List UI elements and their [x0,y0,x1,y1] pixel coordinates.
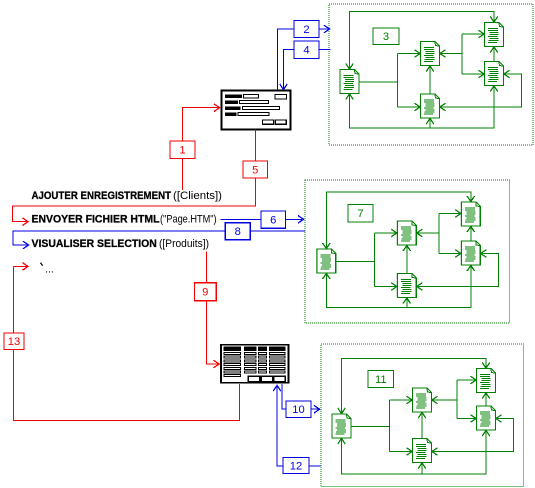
module 3 arrow into left doc bottom [338,439,346,445]
arrow blue into module3 border [314,405,320,413]
module 2 arrow into left doc bottom [323,274,331,280]
wire blue table to box10 [282,384,286,409]
svg-text:AJOUTER ENREGISTREMENT([Client: AJOUTER ENREGISTREMENT([Clients]) [32,190,223,202]
module 2 wire centre-bottom to centre-top [406,246,408,274]
svg-text:3: 3 [383,31,389,43]
event box 4 [294,41,319,59]
module 3 document right-mid [477,406,496,430]
module 2 arrow into left doc top [323,243,331,249]
svg-text:10: 10 [292,404,304,416]
module 1 arrow into centre-bottom doc right [440,103,446,111]
module 3 document top-right [477,369,496,393]
module 1 wire left doc to junction [360,81,398,83]
module 1 arrow into centre-top doc bottom [426,66,434,72]
wire blue box10 right arrow [311,408,319,410]
wire blue box4 right to module1 [319,49,331,51]
module 3 arrow into top-right doc top [482,363,490,369]
module 3 wire junction to centre-top doc [390,399,413,401]
sequence box 9 [194,283,216,301]
module 1 arrow into left doc top [346,64,354,70]
module 1 arrow into right-mid doc bottom [490,86,498,92]
module 2 arrow into top-right doc left [455,210,461,218]
module 1 junction vertical [397,54,399,108]
module 3 document centre-top [413,388,432,412]
svg-text:5: 5 [252,164,258,176]
arrow blue into table bottom [273,386,281,392]
wire blue box4 left to form top [284,50,295,89]
arrow blue into module2 border [298,216,304,224]
module 3 arrow into right-mid doc left [471,415,477,423]
module 2 wire junction to centre-top doc [374,232,397,234]
wire blue box12 right to module3 [309,465,321,467]
module 3 wire right return [432,419,514,452]
sequence box 1 [170,141,195,159]
arrow red into form left [214,104,220,112]
module 2 wire bottom rail [326,266,471,308]
module 3 arrow into top-right doc left [471,376,477,384]
form window icon [222,91,291,130]
module 1 arrow into centre-top doc right [440,50,446,58]
module 3 hub vertical [456,380,458,419]
module 2 junction vertical [373,233,375,287]
module 3 wire right-mid to top-right [485,393,487,406]
module 3 arrow into centre-bottom doc right [432,448,438,456]
module 1 document right-mid [485,62,504,86]
arrow red into table left [214,360,220,368]
module 2 arrow into top-right doc top [467,196,475,202]
module 3 wire bottom rail to centre-bottom doc [421,463,423,474]
arrow red into ENVOYER text [23,218,29,226]
sequence box 13 [4,333,24,350]
module 2 arrow into centre-top doc right [417,229,423,237]
wire red VISUALISER down to table [207,252,219,365]
module 1 wire bottom rail [350,86,495,128]
module 1 document centre-top [421,42,440,66]
svg-text:2: 2 [303,24,309,36]
arrow blue into VISUALISER text [23,241,29,249]
module 3 arrow into right-mid doc bottom [482,431,490,437]
wire blue module2 to VISUALISER [13,231,305,245]
module 3 number box 11 [368,371,394,388]
module 1 wire junction to centre-top doc [398,53,421,55]
module 3 arrow into centre-top doc left [407,396,413,404]
module 2 arrow into centre-top doc bottom [403,246,411,252]
svg-text:...: ... [45,264,54,276]
module 2 arrow into top-right doc bottom [467,227,475,233]
module 1 arrow into centre-bottom doc left [415,103,421,111]
wire blue box2 left to form top [278,29,295,90]
module 1 wire hub to centre-top doc right [440,53,462,55]
svg-text:12: 12 [290,460,302,472]
svg-text:VISUALISER SELECTION([Produits: VISUALISER SELECTION([Produits]) [32,238,210,250]
module 1 arrow into centre-bottom doc bottom [426,119,434,125]
module 2 wire bottom rail to centre-bottom doc [406,298,408,308]
module 1 arrow into top-right doc top [490,17,498,23]
wire red ellipsis stub [14,265,27,267]
module 2 wire hub to right-mid doc [439,253,461,255]
module 1 arrow into right-mid doc right [504,70,510,78]
module 2 document centre-top [397,221,416,245]
module 2 wire left doc to junction [336,261,374,263]
module 2 number box 7 [348,205,373,223]
module 3 arrow into centre-bottom doc bottom [418,463,426,469]
event box 8 [225,223,250,240]
module 3 arrow into top-right doc bottom [482,393,490,399]
event box 6 [261,211,286,228]
module 2 arrow into right-mid doc bottom [467,266,475,272]
module 1 wire bottom rail to centre-bottom doc [429,119,431,129]
module 2 arrow into right-mid doc right [481,250,487,258]
wire blue box12 to table bottom [277,386,283,466]
module 1 wire hub to right-mid doc [462,73,484,75]
module 1 hub vertical [461,34,463,74]
module 1 document left [340,70,359,94]
module 2 wire right return [417,254,499,287]
svg-text:4: 4 [303,45,309,57]
module 1 wire centre-bottom to centre-top [429,66,431,94]
module 3 arrow into centre-top doc right [432,396,438,404]
arrow blue into form top [280,84,288,90]
module 2 arrow into right-mid doc left [455,250,461,258]
event box 12 [283,458,309,474]
module 3 arrow into centre-top doc bottom [418,413,426,419]
wire blue box6 right arrow [286,218,303,220]
module 2 arrow into centre-bottom doc bottom [403,298,411,304]
module 3 wire bottom rail [342,431,487,475]
event box 10 [286,401,311,418]
arrow red toward ellipsis [23,263,29,271]
module 2 document centre-bottom [397,274,416,298]
table listing icon [221,345,289,383]
module 2 document left [317,249,336,273]
svg-text:ENVOYER FICHIER HTML("Page.HTM: ENVOYER FICHIER HTML("Page.HTM") [32,214,217,226]
module 1 arrow into centre-top doc left [415,50,421,58]
module 2 wire top rail [326,192,471,249]
svg-text:7: 7 [357,208,363,220]
module 3 document left [332,414,351,438]
module 1 dotted frame [329,4,533,145]
text ellipsis backtick [41,263,43,266]
module 3 wire top rail [342,359,487,414]
module 1 arrow into left doc bottom [346,94,354,100]
wire blue ENVOYER to box6 [221,218,262,220]
module 1 arrow into right-mid doc left [479,70,485,78]
module 2 wire hub to centre-top doc right [417,232,439,234]
module 1 arrow into top-right doc left [479,30,485,38]
module 3 arrow into left doc top [338,408,346,414]
module 1 document centre-bottom [421,94,440,118]
svg-text:13: 13 [8,336,20,348]
module 2 document top-right [461,202,480,226]
module 2 arrow into centre-bottom doc right [417,283,423,291]
wire red call of AJOUTER (box 1 run) [182,108,219,190]
wire red form bottom to ENVOYER [12,130,255,222]
event box 2 [294,21,319,38]
module 2 wire junction to centre-bottom doc [374,286,397,288]
module 2 dotted frame [305,180,510,323]
svg-text:1: 1 [179,145,185,157]
sequence box 5 [243,161,268,178]
module 1 document top-right [485,23,504,47]
wire red loop back to table (13) [14,266,240,420]
module 2 arrow into centre-bottom doc left [391,283,397,291]
module 3 wire hub to top-right doc [457,379,476,381]
module 3 arrow into centre-bottom doc left [407,448,413,456]
module 3 dotted frame [321,344,524,487]
module 2 arrow into centre-top doc left [391,229,397,237]
module 1 number box 3 [373,28,399,45]
module 3 wire hub to centre-top doc right [432,399,457,401]
module 1 wire hub to top-right doc [462,33,484,35]
module 1 arrow into top-right doc bottom [490,47,498,53]
svg-text:9: 9 [202,287,208,299]
module 2 document right-mid [461,241,480,265]
svg-text:8: 8 [235,226,241,238]
module 3 arrow into right-mid doc right [496,415,502,423]
svg-text:6: 6 [270,215,276,227]
svg-text:11: 11 [375,374,387,386]
module 1 wire top rail [350,12,495,70]
arrow blue into module1 border [324,25,330,33]
wire blue box2 right arrow [319,28,329,30]
module 2 wire hub to top-right doc [439,213,461,215]
module 3 wire centre-bottom to centre-top [421,413,423,439]
module 1 wire junction to centre-bottom doc [398,106,421,108]
module 3 document centre-bottom [413,439,432,463]
module 3 wire left doc to junction [352,426,390,428]
module 3 junction vertical [389,400,391,452]
module 3 wire junction to centre-bottom doc [390,451,413,453]
module 3 wire hub to right-mid doc [457,418,476,420]
module 1 wire right return [440,74,522,107]
module 2 hub vertical [438,214,440,254]
module 2 wire right-mid to top-right [470,227,472,241]
module 1 wire right-mid to top-right [493,47,495,61]
